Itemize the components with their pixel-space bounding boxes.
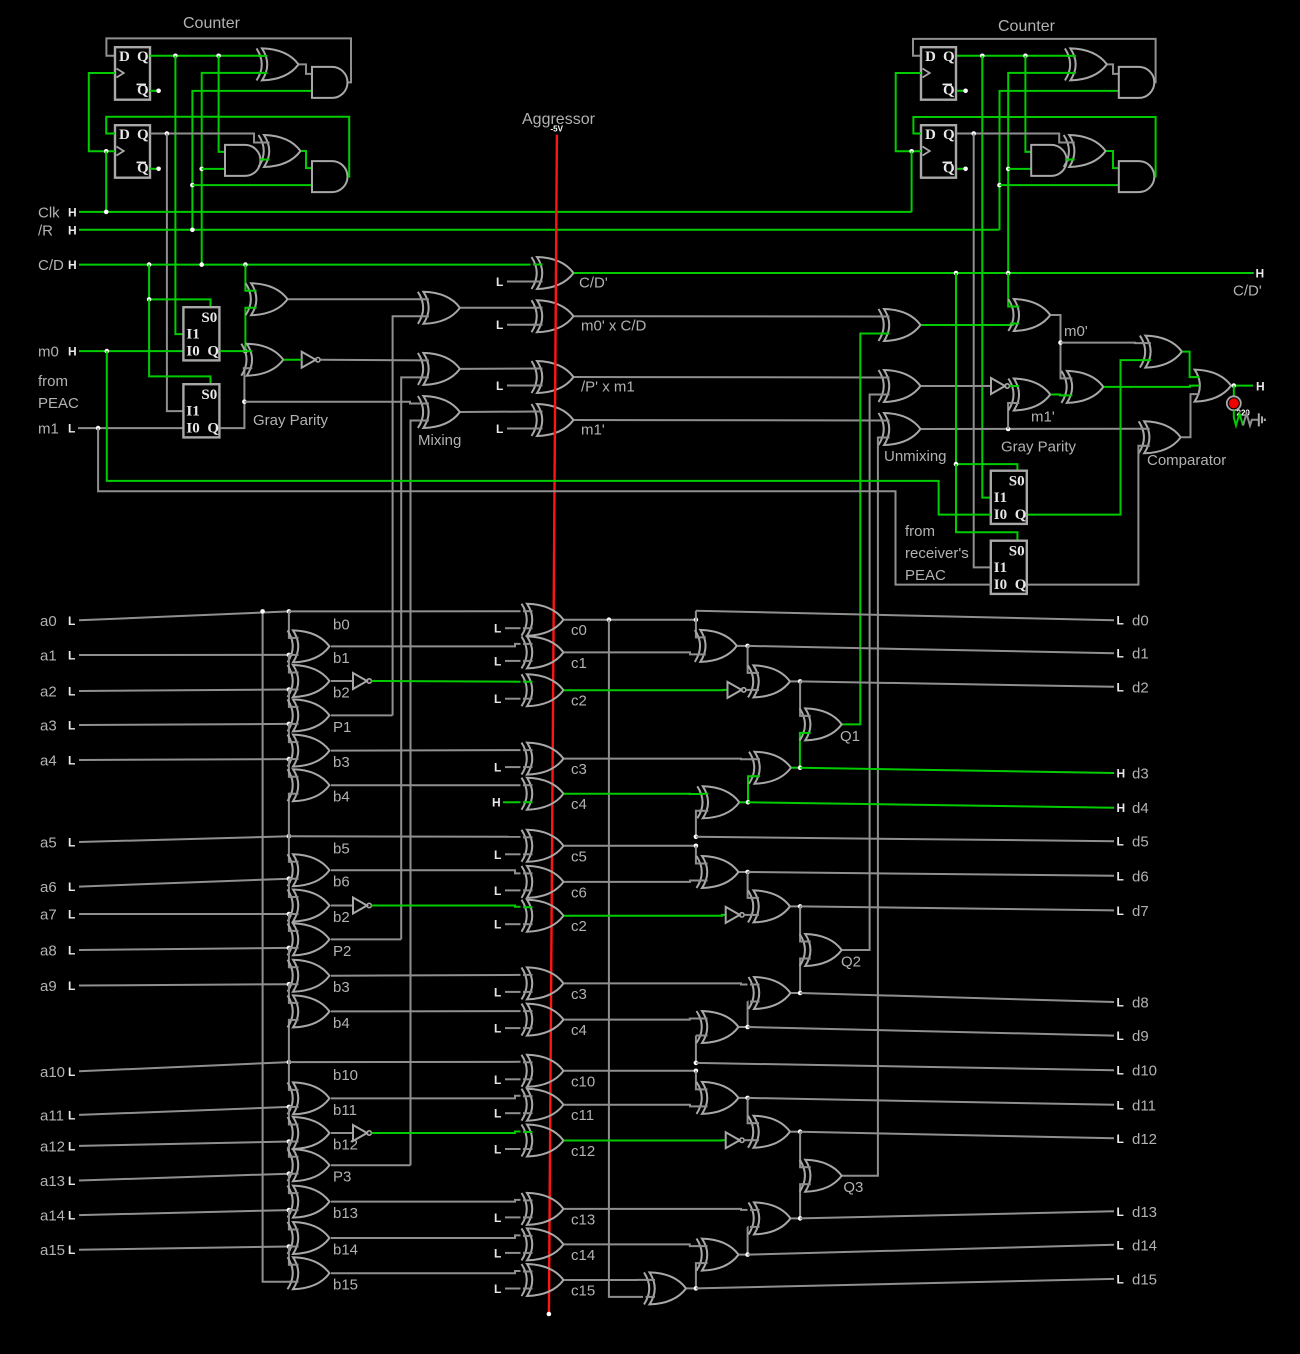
- svg-text:C/D: C/D: [38, 257, 64, 274]
- svg-text:c2: c2: [571, 918, 587, 935]
- wire U2 out to inverter: [921, 385, 991, 387]
- wire riser into gate b13 bottom: [289, 1209, 293, 1211]
- svg-text:L: L: [494, 1282, 501, 1296]
- wire riser into gate P3 top: [289, 1142, 293, 1157]
- xor gate RM1 (recovered m1'): [1014, 379, 1051, 411]
- wire U3 riser to m1' gate lower: [1008, 403, 1014, 429]
- svg-text:S0: S0: [201, 387, 217, 403]
- xor gate T6 (d7 tree): [754, 890, 791, 922]
- or gate FINAL (comparator output): [1195, 370, 1232, 402]
- wire riser into gate b3 top: [289, 724, 293, 742]
- xor gate XOR4 (right counter): [1069, 135, 1106, 167]
- D flip-flop U4 (right counter bit 1): [921, 125, 956, 178]
- svg-text:a4: a4: [40, 753, 57, 770]
- svg-text:from: from: [38, 373, 68, 390]
- xor gate M1 (mixing m0): [423, 292, 460, 324]
- wire TB riser to Q3: [800, 1132, 805, 1168]
- svg-text:D: D: [119, 49, 130, 65]
- wire riser into gate b2 bottom: [289, 913, 293, 915]
- svg-text:c6: c6: [571, 884, 587, 901]
- wire Q1 riser to U1 lower (x=860.3): [842, 334, 884, 725]
- svg-text:D: D: [925, 49, 936, 65]
- svg-text:L: L: [68, 1108, 75, 1122]
- svg-text:m0' x C/D: m0' x C/D: [581, 318, 647, 335]
- svg-text:Q: Q: [943, 49, 955, 65]
- wire riser into gate b1 bottom: [289, 654, 293, 656]
- wire XOR1 out to AND1: [299, 64, 312, 74]
- wire P1 riser to M1 lower (x=392.6): [393, 316, 424, 715]
- svg-text:S0: S0: [1009, 544, 1025, 560]
- wire input a14: [79, 1210, 289, 1215]
- xor gate c4 (central column): [527, 1004, 564, 1036]
- wire b10 line (a10 to c10): [289, 1061, 521, 1063]
- wire Q3 riser to U3 lower (x=877.9): [842, 438, 884, 1176]
- svg-text:C/D': C/D': [579, 275, 608, 292]
- xor gate CD-PRIME (C/D'): [537, 257, 574, 289]
- wire b1 to c1: [331, 644, 521, 647]
- wire input a13: [79, 1174, 289, 1181]
- wire riser into gate b11 bottom: [289, 1106, 293, 1108]
- wire DFF2 Q to XOR2 (gray): [150, 134, 264, 143]
- svg-text:a1: a1: [40, 648, 57, 665]
- svg-text:H: H: [1256, 380, 1265, 394]
- wire c12 green to tree inverter: [564, 1139, 726, 1141]
- svg-text:c4: c4: [571, 1022, 587, 1039]
- svg-text:D: D: [119, 127, 130, 143]
- wire node riser c0/d0/T1: [696, 611, 700, 638]
- svg-text:L: L: [496, 379, 503, 393]
- wire XOR4 out to AND6: [1106, 151, 1119, 168]
- wire T6 out: [791, 905, 801, 907]
- wire C/D riser to MUX S0 selectors (x=149.1): [149, 265, 210, 308]
- inverter INV-TB (group3 tree): [726, 1132, 740, 1148]
- wire clock to DFF1/DFF2 (left): [89, 73, 115, 151]
- svg-text:c0: c0: [571, 622, 587, 639]
- svg-text:c14: c14: [571, 1247, 595, 1264]
- wire C/D riser to XOR1 and AND2 (x=201.7): [202, 73, 264, 265]
- wire c1 to T1 lower: [564, 652, 700, 654]
- xor gate T5 (d6 tree): [702, 856, 739, 888]
- svg-text:d13: d13: [1132, 1204, 1157, 1221]
- wire riser into gate b3 bottom: [289, 983, 293, 985]
- wire /R riser to AND1 and AND3 (x=192.4): [192, 91, 312, 230]
- svg-text:Q: Q: [207, 421, 219, 437]
- wire output line d15: [696, 1279, 1114, 1289]
- wire DFF4 Q to XOR4 (gray): [957, 134, 1069, 143]
- wire c2 group2 green to tree inverter: [564, 914, 726, 917]
- wire c0 output to node: [564, 619, 696, 621]
- D flip-flop U3 (right counter bit 0): [921, 47, 956, 99]
- wire riser into gate b2 top: [289, 655, 293, 673]
- wire DFF1 Q net (Q1): [150, 55, 262, 57]
- wire TB out: [791, 1131, 801, 1133]
- svg-text:D: D: [925, 127, 936, 143]
- wire Clk riser left: [105, 151, 107, 212]
- xor gate b14: [293, 1222, 330, 1254]
- wire node3 riser to TA top: [696, 1071, 702, 1090]
- inverter INV-T2 (group1 tree): [728, 682, 742, 698]
- wire DFF3 Q net (Q3): [957, 55, 1070, 57]
- svg-text:b10: b10: [333, 1067, 358, 1084]
- wire c4 green to T4 top: [564, 793, 703, 795]
- wire U3 out to comparator and m1' gate: [921, 428, 1144, 430]
- multiplexer RMUX1 (receiver, m0 side): [991, 471, 1027, 524]
- xor gate XOR2 (left counter): [264, 135, 301, 167]
- xor gate CMP2 (comparator lower): [1144, 421, 1181, 453]
- wire riser into gate b3 bottom: [289, 758, 293, 760]
- svg-text:L: L: [1117, 996, 1124, 1010]
- xor gate T2 (d2 tree): [754, 665, 791, 697]
- wire MUX1 Q out to XOR-A/XOR-B: [220, 350, 247, 352]
- svg-text:b1: b1: [333, 650, 350, 667]
- svg-text:a12: a12: [40, 1138, 65, 1155]
- svg-text:a3: a3: [40, 718, 57, 735]
- wire b3 to c3: [331, 749, 521, 752]
- svg-text:c3: c3: [571, 986, 587, 1003]
- wire Q3 riser to AND5: [1025, 56, 1031, 152]
- svg-text:Q: Q: [137, 127, 149, 143]
- xor gate U1 (unmixing m0): [884, 309, 921, 341]
- svg-text:L: L: [1117, 1029, 1124, 1043]
- svg-text:from: from: [905, 523, 935, 540]
- wire input a6: [79, 879, 289, 887]
- wire riser into gate b11 top: [289, 1062, 293, 1090]
- xor gate Q2 (group2 parity): [805, 934, 842, 966]
- svg-text:m1': m1': [581, 421, 605, 438]
- xor gate b1: [293, 630, 330, 662]
- svg-text:Clk: Clk: [38, 205, 60, 222]
- wire TE out: [687, 1287, 696, 1289]
- svg-text:d9: d9: [1132, 1028, 1149, 1045]
- svg-text:a5: a5: [40, 835, 57, 852]
- wire riser into gate b4 top: [289, 759, 293, 777]
- svg-text:L: L: [494, 1022, 501, 1036]
- svg-text:H: H: [68, 205, 77, 219]
- svg-text:-5V: -5V: [551, 125, 564, 134]
- svg-text:b2: b2: [333, 909, 350, 926]
- wire riser into gate b4 top: [289, 984, 293, 1003]
- svg-text:d15: d15: [1132, 1271, 1157, 1288]
- svg-text:Q: Q: [1015, 577, 1027, 593]
- wire c11 to TA lower: [564, 1105, 702, 1107]
- svg-text:c11: c11: [571, 1107, 594, 1124]
- wire C/D' riser to receiver MUX selectors (x=956): [956, 273, 1017, 471]
- wire riser into gate P2 top: [289, 914, 293, 931]
- wire T3 out (d3 node): [792, 767, 801, 769]
- svg-text:a2: a2: [40, 684, 57, 701]
- wire TA riser to TB: [748, 1098, 754, 1123]
- wire output line d8: [800, 993, 1114, 1002]
- wire input a12: [79, 1142, 289, 1146]
- wire TD riser to TC lower: [747, 1227, 749, 1255]
- wire inverter to T6 lower: [744, 914, 753, 916]
- svg-text:L: L: [494, 1107, 501, 1121]
- svg-text:C/D': C/D': [1233, 283, 1262, 300]
- svg-text:d14: d14: [1132, 1237, 1157, 1254]
- D flip-flop U1 (left counter bit 0): [115, 47, 150, 99]
- svg-text:receiver's: receiver's: [905, 545, 969, 562]
- svg-text:I1: I1: [186, 327, 199, 343]
- svg-text:L: L: [68, 685, 75, 699]
- xor gate M3 (mixing m1): [423, 396, 460, 428]
- wire aggressor red line: [549, 135, 557, 1314]
- xor gate b12: [293, 1117, 330, 1149]
- wire CMP2 out to final OR bottom: [1181, 394, 1194, 437]
- xor gate b15: [293, 1257, 330, 1289]
- wire CMP1 out to final OR top: [1182, 352, 1194, 378]
- wire b11 to c11: [331, 1096, 521, 1099]
- svg-text:a0: a0: [40, 613, 57, 630]
- inverter INV-b12 (group3): [331, 1132, 353, 1134]
- wire output line d4: [748, 802, 1114, 807]
- xor gate b2: [293, 890, 330, 922]
- svg-text:I0: I0: [994, 507, 1007, 523]
- svg-text:H: H: [68, 223, 77, 237]
- wire riser into gate b14 top: [289, 1210, 293, 1229]
- wire TD out: [739, 1254, 748, 1256]
- svg-text:L: L: [68, 979, 75, 993]
- svg-text:L: L: [494, 654, 501, 668]
- svg-text:I0: I0: [186, 344, 199, 360]
- wire inverter to TB lower: [744, 1139, 753, 1141]
- svg-text:c3: c3: [571, 761, 587, 778]
- svg-text:d1: d1: [1132, 646, 1149, 663]
- wire b6 to c6: [331, 870, 521, 873]
- svg-text:d0: d0: [1132, 613, 1149, 630]
- svg-text:c12: c12: [571, 1143, 595, 1160]
- svg-text:L: L: [494, 1073, 501, 1087]
- svg-text:L: L: [68, 754, 75, 768]
- wire c0 trunk down to c15 tree gate (x=608.9): [609, 620, 643, 1297]
- svg-text:L: L: [1117, 680, 1124, 694]
- xor gate MIX1 (m1'): [537, 404, 574, 436]
- wire input a0: [79, 611, 289, 620]
- wire b4 to c4: [331, 784, 521, 786]
- wire m0-from-PEAC long line to RMUX1 I0: [107, 351, 991, 514]
- wire Q4 riser to RMUX2 I1 (gray): [974, 134, 991, 568]
- wire m1' out to G1 lower: [1051, 394, 1067, 397]
- svg-text:PEAC: PEAC: [905, 567, 946, 584]
- xor gate T3 (d3 tree): [755, 752, 792, 784]
- xor gate b4: [293, 769, 330, 801]
- xor gate c3 (central column): [527, 967, 564, 999]
- wire input a9: [79, 984, 289, 985]
- svg-text:H: H: [1256, 267, 1265, 281]
- svg-text:L: L: [68, 719, 75, 733]
- wire G1 out to final OR middle: [1104, 386, 1195, 387]
- wire output line d9: [748, 1027, 1114, 1036]
- xor gate T4 (d4 tree): [703, 786, 740, 818]
- wire riser into gate b15 top: [289, 1247, 293, 1265]
- xor gate c6 (central column): [527, 866, 564, 898]
- svg-text:P1: P1: [333, 719, 351, 736]
- wire T1 out: [737, 645, 747, 647]
- xor gate TA (d11 tree): [702, 1082, 739, 1114]
- svg-text:b11: b11: [333, 1102, 357, 1119]
- xor gate b13: [293, 1186, 330, 1218]
- svg-text:d3: d3: [1132, 766, 1149, 783]
- wire Q3 riser to RMUX1 I1: [982, 56, 991, 498]
- wire c3 to T3 top: [564, 758, 755, 761]
- svg-text:L: L: [1117, 1132, 1124, 1146]
- svg-text:L: L: [1117, 1272, 1124, 1286]
- svg-text:b6: b6: [333, 874, 350, 891]
- wire m0-mux riser to XOR-A lower: [245, 308, 251, 351]
- svg-text:d12: d12: [1132, 1131, 1157, 1148]
- wire RMUX1 Q riser to CMP1 lower (x=1120.5): [1027, 360, 1146, 514]
- wire input a3: [79, 724, 289, 725]
- wire Q2 riser to MUX2 I1 (gray): [167, 134, 184, 412]
- wire DFF1 Q-bar stub: [150, 90, 159, 92]
- wire output line d10: [696, 1063, 1114, 1070]
- svg-text:L: L: [68, 944, 75, 958]
- xor gate G1 (right gray parity): [1067, 371, 1104, 403]
- svg-text:d7: d7: [1132, 903, 1149, 920]
- xor gate c4 (central column): [527, 778, 564, 810]
- wire T7 riser to Q2 lower: [800, 959, 805, 994]
- wire riser into gate b12 bottom: [289, 1141, 293, 1143]
- wire U1 out to m0' gate: [921, 324, 1014, 326]
- xor gate c10 (central column): [527, 1055, 564, 1087]
- svg-text:b4: b4: [333, 1015, 350, 1032]
- xor gate TE (d15 tree, c15 x c0): [650, 1272, 687, 1304]
- inverter INV-b2 (group1): [331, 680, 353, 682]
- wire output line d6: [748, 872, 1114, 876]
- LED D1 (error indicator): [1227, 396, 1241, 410]
- xor gate MIXP (/P' x m1): [537, 361, 574, 393]
- wire TC riser to Q3 lower: [800, 1184, 805, 1218]
- wire b5 line (a5 to c5): [289, 835, 521, 838]
- and gate AND3 (left counter): [312, 161, 347, 192]
- wire T7 out: [791, 992, 800, 994]
- svg-text:m0: m0: [38, 344, 59, 361]
- svg-text:L: L: [68, 836, 75, 850]
- wire input a10: [79, 1062, 289, 1071]
- wire input a5: [79, 836, 289, 842]
- wire riser into gate b6 top: [289, 836, 293, 861]
- wire b2 inverted (green) to c2: [371, 680, 520, 683]
- svg-text:m1': m1': [1031, 409, 1055, 426]
- svg-text:Q: Q: [207, 344, 219, 360]
- wire m1-mux tap to Mixing M3: [244, 402, 423, 404]
- svg-text:H: H: [68, 258, 77, 272]
- wire inverter to T2 lower: [746, 689, 754, 691]
- wire c13 to TC top: [564, 1209, 748, 1210]
- xor gate P1: [293, 699, 330, 731]
- wire C/D riser to XOR-A top (x=245.4): [245, 265, 251, 291]
- svg-text:L: L: [1117, 835, 1124, 849]
- wire node3 riser to T8 lower: [695, 1036, 697, 1063]
- svg-text:Q3: Q3: [843, 1179, 863, 1196]
- wire AND2 out to XOR2: [261, 159, 264, 162]
- svg-text:L: L: [494, 1246, 501, 1260]
- wire Q1 riser to MUX1 I1: [175, 56, 183, 334]
- wire riser into gate b13 top: [289, 1174, 293, 1193]
- svg-text:H: H: [68, 345, 77, 359]
- wire input a11: [79, 1107, 289, 1115]
- wire green feedback box left counter (AND3 out to DFF2 D): [106, 117, 349, 177]
- multiplexer MUX1 (left gray parity, m0): [183, 307, 219, 360]
- svg-text:L: L: [1117, 869, 1124, 883]
- svg-text:L: L: [496, 422, 503, 436]
- xor gate T8 (d9 tree): [702, 1011, 739, 1043]
- svg-text:Comparator: Comparator: [1147, 452, 1226, 469]
- svg-text:H: H: [492, 796, 501, 810]
- inverter INV-B before m1' recovery gate: [991, 378, 1005, 394]
- svg-text:L: L: [494, 884, 501, 898]
- svg-text:/P' x m1: /P' x m1: [581, 378, 635, 395]
- xor gate c0 (central column): [527, 604, 564, 636]
- wire P1 to mixing riser: [331, 714, 393, 716]
- wire P2 to mixing riser: [331, 938, 401, 940]
- xor gate b3: [293, 735, 330, 767]
- wire output line d14: [748, 1245, 1114, 1255]
- svg-text:L: L: [494, 918, 501, 932]
- wire TC out: [791, 1217, 800, 1219]
- xor gate MIX0 (m0' x C/D): [537, 300, 574, 332]
- wire b15 to c15: [331, 1271, 521, 1273]
- svg-text:a7: a7: [40, 907, 57, 924]
- svg-text:L: L: [494, 1143, 501, 1157]
- svg-text:Q: Q: [137, 49, 149, 65]
- svg-text:/R: /R: [38, 223, 53, 240]
- svg-text:d11: d11: [1132, 1097, 1156, 1114]
- svg-text:a8: a8: [40, 943, 57, 960]
- and gate AND5 (right counter): [1031, 145, 1067, 176]
- svg-text:b2: b2: [333, 685, 350, 702]
- svg-text:P2: P2: [333, 943, 351, 960]
- svg-text:L: L: [68, 1139, 75, 1153]
- svg-text:a10: a10: [40, 1064, 65, 1081]
- svg-text:L: L: [494, 692, 501, 706]
- xor gate b11: [293, 1082, 330, 1114]
- wire c2 green to tree inverter: [564, 689, 728, 691]
- inverter INV-T6 (group2 tree): [726, 907, 740, 923]
- xor gate Q1 (group1 parity): [805, 708, 842, 740]
- wire TA out: [739, 1097, 748, 1099]
- wire m0' out to G1 and comparator: [1051, 315, 1067, 378]
- svg-text:Q2: Q2: [841, 954, 861, 971]
- xor gate c2 (central column): [527, 674, 564, 706]
- wire T5 riser to T6: [748, 872, 754, 898]
- wire output line d2: [800, 681, 1114, 686]
- svg-text:I1: I1: [994, 560, 1007, 576]
- and gate AND4 (right counter): [1119, 67, 1154, 98]
- xor gate Q3 (group3 parity): [805, 1160, 842, 1192]
- xor gate c13 (central column): [527, 1193, 564, 1225]
- svg-text:a14: a14: [40, 1208, 65, 1225]
- xor gate XOR-B (left gray parity): [247, 344, 283, 376]
- inverter INV-A after XOR-B: [302, 352, 316, 368]
- wire /R riser to AND4 and AND6 (x=999.5): [1000, 91, 1119, 230]
- wire input a2: [79, 690, 289, 692]
- wire riser into gate b4 bottom: [289, 794, 293, 837]
- svg-text:L: L: [1117, 647, 1124, 661]
- wire a0 trunk to b15 gate (x=262.6): [263, 611, 293, 1281]
- wire DFF3 Q-bar stub: [957, 90, 966, 92]
- svg-text:b3: b3: [333, 754, 350, 771]
- wire output line d0: [696, 611, 1114, 621]
- xor gate b2: [293, 665, 330, 697]
- wire b4 group2 to c4: [331, 1010, 521, 1012]
- wire input a1: [79, 654, 289, 656]
- svg-text:I0: I0: [994, 577, 1007, 593]
- wire d3 riser to Q1 lower: [800, 733, 805, 768]
- wire output line d1: [748, 646, 1114, 653]
- svg-text:c1: c1: [571, 655, 587, 672]
- wire riser into gate P3 bottom: [289, 1173, 293, 1175]
- svg-text:I1: I1: [186, 404, 199, 420]
